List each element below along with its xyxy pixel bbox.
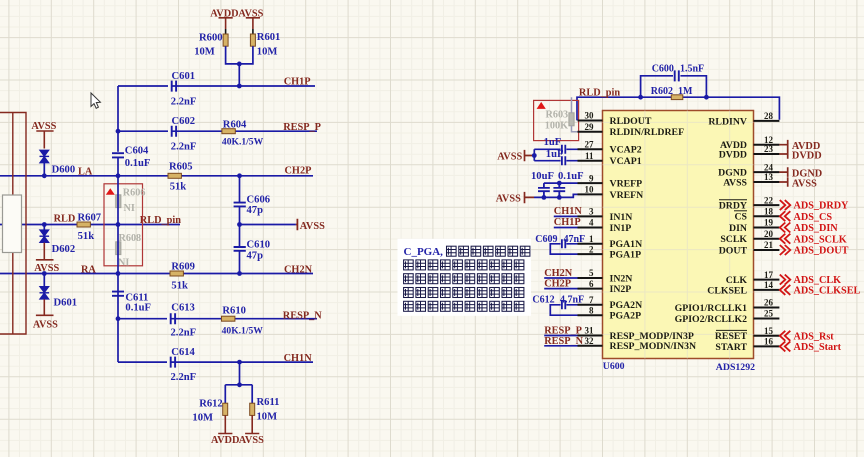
junction RA diode xyxy=(42,271,47,276)
net label CH2N (IC) xyxy=(544,268,577,279)
capacitor 10uF xyxy=(531,171,554,198)
power port AVSS (mid right) xyxy=(296,219,325,232)
svg-text:47p: 47p xyxy=(247,205,264,216)
svg-text:0.1uF: 0.1uF xyxy=(558,171,584,182)
capacitor C610 xyxy=(234,239,270,261)
power port AVSS (top) xyxy=(238,9,263,29)
pin 18 stub xyxy=(754,215,780,217)
svg-text:28: 28 xyxy=(764,111,774,121)
svg-text:ADS_SCLK: ADS_SCLK xyxy=(794,234,847,245)
svg-text:C602: C602 xyxy=(172,116,196,127)
svg-text:21: 21 xyxy=(764,240,774,250)
junction loop right xyxy=(704,95,709,100)
resistor R608 (NI, grayed) xyxy=(116,233,141,269)
svg-text:C601: C601 xyxy=(172,71,196,82)
svg-text:16: 16 xyxy=(764,337,774,347)
wire left rail (vertical x=118) xyxy=(117,86,119,152)
svg-text:C606: C606 xyxy=(247,194,271,205)
pin 14 stub xyxy=(754,289,780,291)
wire VREF AVSS row xyxy=(534,194,578,197)
svg-text:IN2P: IN2P xyxy=(610,284,632,295)
note box C_PGA xyxy=(398,239,532,316)
svg-text:VCAP2: VCAP2 xyxy=(610,145,642,156)
svg-text:C612: C612 xyxy=(532,294,554,305)
svg-text:AVSS: AVSS xyxy=(300,221,325,232)
svg-text:R611: R611 xyxy=(257,397,280,408)
wire rail LA to RESP_N through NI resistors xyxy=(117,176,119,319)
svg-text:AVSS: AVSS xyxy=(31,121,56,132)
svg-text:R607: R607 xyxy=(78,212,102,223)
wire AVSS tap xyxy=(240,224,296,226)
net label CH1N (IC) xyxy=(554,206,583,217)
power port AVSS (top left) xyxy=(31,121,56,148)
svg-text:4.7nF: 4.7nF xyxy=(560,294,584,305)
svg-text:4: 4 xyxy=(589,218,594,228)
resistor R604 xyxy=(222,120,264,148)
svg-text:D602: D602 xyxy=(52,244,76,255)
capacitor C600 xyxy=(652,64,704,82)
resistor R606 (NI, grayed) xyxy=(116,187,146,214)
power port AVDD (bottom) xyxy=(211,415,239,445)
svg-text:26: 26 xyxy=(764,298,774,308)
svg-text:2.2nF: 2.2nF xyxy=(171,96,197,107)
pin 12 stub xyxy=(754,144,780,146)
svg-text:31: 31 xyxy=(585,326,595,336)
pin 2 stub xyxy=(578,253,603,255)
svg-text:RESP_N: RESP_N xyxy=(283,310,322,321)
wire RESP_N xyxy=(118,318,317,320)
svg-text:27: 27 xyxy=(585,140,595,150)
power port AVSS (bottom) xyxy=(239,415,264,445)
capacitor C612 xyxy=(532,294,584,315)
wire C604 bottom to LA xyxy=(117,157,119,175)
NI region box (R606/R608) xyxy=(104,184,143,266)
svg-text:32: 32 xyxy=(585,336,595,346)
svg-text:R609: R609 xyxy=(171,262,195,273)
wire RLD xyxy=(0,224,180,226)
svg-text:NI: NI xyxy=(118,258,129,269)
svg-text:DIN: DIN xyxy=(729,223,747,234)
junction C606/C610 AVSS tap xyxy=(237,222,242,227)
pin 16 stub xyxy=(754,345,780,347)
svg-text:AVSS: AVSS xyxy=(34,263,59,274)
capacitor C602 xyxy=(168,116,196,153)
svg-text:CH1N: CH1N xyxy=(284,353,313,364)
svg-text:ADS_CLKSEL: ADS_CLKSEL xyxy=(794,286,861,297)
wire CH1P xyxy=(118,85,315,87)
svg-text:AVDD: AVDD xyxy=(210,9,238,20)
diode D601 xyxy=(40,274,78,309)
resistor R600 xyxy=(194,33,228,58)
svg-text:15: 15 xyxy=(764,326,774,336)
svg-text:1M: 1M xyxy=(678,86,693,97)
svg-text:R602: R602 xyxy=(651,86,673,97)
wire CH1N xyxy=(118,361,313,363)
svg-text:1.5nF: 1.5nF xyxy=(680,64,704,75)
power port AVSS (below D602) xyxy=(34,243,59,274)
pin 27 stub xyxy=(578,148,603,150)
svg-text:U600: U600 xyxy=(603,361,625,372)
svg-text:R608: R608 xyxy=(119,233,142,244)
svg-text:1uF: 1uF xyxy=(546,149,564,160)
svg-text:7: 7 xyxy=(589,295,594,305)
no-ERC marker pin (ADS_CLK) xyxy=(780,275,791,285)
no-ERC marker pin (ADS_Start) xyxy=(780,341,791,351)
svg-text:30: 30 xyxy=(585,111,595,121)
svg-text:LA: LA xyxy=(78,167,93,178)
power port AVDD (top) xyxy=(210,9,238,29)
wire RA/CH2N xyxy=(0,273,313,275)
svg-text:CS: CS xyxy=(734,212,747,223)
svg-text:100K: 100K xyxy=(545,120,568,131)
svg-text:DOUT: DOUT xyxy=(719,245,748,256)
svg-text:9: 9 xyxy=(589,173,594,183)
svg-text:RESP_P: RESP_P xyxy=(283,122,321,133)
power port AVDD (right) xyxy=(779,140,820,152)
pin 19 stub xyxy=(754,227,780,229)
svg-text:R604: R604 xyxy=(223,120,247,131)
svg-text:IN2N: IN2N xyxy=(610,273,633,284)
resistor R603 (NI, grayed) xyxy=(545,97,579,132)
pin 32 stub xyxy=(578,345,603,347)
svg-text:23: 23 xyxy=(764,144,774,154)
svg-text:RLDINV: RLDINV xyxy=(708,116,747,127)
svg-text:DRDY: DRDY xyxy=(719,201,747,212)
svg-text:47p: 47p xyxy=(247,251,264,262)
svg-text:R605: R605 xyxy=(169,162,193,173)
capacitor C613 xyxy=(167,303,196,339)
capacitor C604 xyxy=(112,145,150,169)
power port AVSS (VREF) xyxy=(496,192,534,204)
svg-text:D600: D600 xyxy=(52,164,76,175)
junction CH2N column xyxy=(237,271,242,276)
capacitor C 1uF (VCAP1) xyxy=(546,149,566,165)
wire R600 top lead xyxy=(225,29,227,34)
pin 25 stub xyxy=(754,318,780,320)
svg-text:DVDD: DVDD xyxy=(719,149,747,160)
svg-text:ADS_CS: ADS_CS xyxy=(794,212,833,223)
svg-text:1uF: 1uF xyxy=(544,137,562,148)
svg-text:29: 29 xyxy=(585,122,595,132)
junction LA rail xyxy=(116,173,121,178)
IC U600 body xyxy=(603,111,754,359)
svg-text:PGA2N: PGA2N xyxy=(610,300,643,311)
junction 10uF bottom xyxy=(542,195,547,200)
svg-text:RLDOUT: RLDOUT xyxy=(610,116,652,127)
pin 11 stub xyxy=(578,160,603,162)
capacitor C609 xyxy=(535,234,585,254)
svg-text:0.1uF: 0.1uF xyxy=(125,158,151,169)
diode D602 xyxy=(40,225,76,256)
svg-text:R606: R606 xyxy=(123,187,146,198)
svg-text:RLDIN/RLDREF: RLDIN/RLDREF xyxy=(610,127,685,138)
svg-text:NI: NI xyxy=(124,203,135,214)
svg-text:AVSS: AVSS xyxy=(239,435,264,446)
junction CH1N column xyxy=(237,360,242,365)
pin 28 stub xyxy=(754,120,780,122)
svg-text:10M: 10M xyxy=(194,46,215,57)
svg-text:GPIO2/RCLLK2: GPIO2/RCLLK2 xyxy=(675,314,747,325)
svg-text:C_PGA,: C_PGA, xyxy=(404,246,444,258)
pin 31 stub xyxy=(578,335,603,337)
junction RA rail xyxy=(116,271,121,276)
NI warning triangle xyxy=(106,188,115,195)
svg-text:ADS_DIN: ADS_DIN xyxy=(794,223,839,234)
svg-text:D601: D601 xyxy=(54,298,78,309)
wire C610 to CH2N xyxy=(239,251,241,274)
pin 6 stub xyxy=(578,288,603,290)
svg-text:ADS1292: ADS1292 xyxy=(716,362,755,373)
power port DVDD (right) xyxy=(779,149,821,161)
svg-text:10M: 10M xyxy=(192,413,213,424)
pin 9 stub xyxy=(578,182,603,184)
wire VCAP2/VCAP1 to AVSS xyxy=(534,149,577,160)
pin 3 stub xyxy=(578,215,603,217)
wire R600/R601 bottoms to junction xyxy=(226,46,253,86)
svg-text:51k: 51k xyxy=(78,231,95,242)
svg-text:ADS_Start: ADS_Start xyxy=(794,342,842,353)
pin 13 stub xyxy=(754,181,780,183)
svg-text:10M: 10M xyxy=(257,46,278,57)
sheet pin box (left edge) xyxy=(3,195,22,253)
power port AVSS (right) xyxy=(779,177,817,189)
diode D600 xyxy=(40,150,76,176)
pin 23 stub xyxy=(754,153,780,155)
wire RLD_pin main line xyxy=(577,97,779,120)
grid over IC xyxy=(603,111,754,359)
svg-text:AVDD: AVDD xyxy=(211,435,239,446)
no-ERC marker pin (ADS_DRDY) xyxy=(780,200,791,210)
svg-text:51k: 51k xyxy=(171,280,188,291)
pin 21 stub xyxy=(754,249,780,251)
wire R601 top lead xyxy=(252,29,254,34)
svg-text:AVSS: AVSS xyxy=(723,177,747,188)
mouse cursor xyxy=(91,93,100,108)
wire C606 to AVSS junction xyxy=(239,206,241,247)
power port AVSS (below D601) xyxy=(33,299,58,330)
svg-text:14: 14 xyxy=(764,280,774,290)
svg-text:R610: R610 xyxy=(222,306,246,317)
svg-text:VREFP: VREFP xyxy=(610,179,643,190)
svg-text:0.1uF: 0.1uF xyxy=(125,303,151,314)
no-ERC marker pin (ADS_CLKSEL) xyxy=(780,285,791,295)
NI region box R603 xyxy=(534,100,579,140)
no-ERC marker pin (ADS_Rst) xyxy=(780,331,791,341)
svg-text:AVSS: AVSS xyxy=(792,179,817,190)
svg-text:24: 24 xyxy=(764,162,774,172)
resistor R612 xyxy=(192,398,227,423)
svg-text:6: 6 xyxy=(589,279,594,289)
svg-text:19: 19 xyxy=(764,218,774,228)
junction VREFP 0.1uF xyxy=(557,181,562,186)
resistor R605 xyxy=(168,162,193,193)
pin 29 stub xyxy=(578,131,603,133)
junction R600/R601 xyxy=(237,62,242,67)
svg-text:AVSS: AVSS xyxy=(33,320,58,331)
svg-text:2: 2 xyxy=(589,244,594,254)
wire LA/CH2P xyxy=(0,175,313,177)
svg-text:VCAP1: VCAP1 xyxy=(610,156,642,167)
svg-text:C614: C614 xyxy=(171,347,195,358)
svg-text:R612: R612 xyxy=(199,398,223,409)
no-ERC marker pin (ADS_CS) xyxy=(780,211,791,221)
pin 30 stub xyxy=(578,120,603,122)
svg-text:RESP_MODN/IN3N: RESP_MODN/IN3N xyxy=(610,341,697,352)
svg-text:RLD: RLD xyxy=(54,214,76,225)
svg-text:CH2P: CH2P xyxy=(285,166,312,177)
svg-text:2.2nF: 2.2nF xyxy=(171,372,197,383)
capacitor C611 xyxy=(112,292,151,314)
svg-text:25: 25 xyxy=(764,309,774,319)
sheet part box (left edge) xyxy=(0,113,26,335)
svg-text:RESET: RESET xyxy=(715,331,748,342)
svg-text:IN1P: IN1P xyxy=(610,223,632,234)
svg-text:11: 11 xyxy=(585,151,594,161)
svg-text:IN1N: IN1N xyxy=(610,212,633,223)
svg-text:CLKSEL: CLKSEL xyxy=(707,285,747,296)
svg-text:22: 22 xyxy=(764,195,774,205)
junction RLD rail xyxy=(116,222,121,227)
wire CH1N junction down to R612/R611 xyxy=(225,362,252,403)
junction RESP_N rail xyxy=(116,316,121,321)
svg-text:18: 18 xyxy=(764,206,774,216)
wire VREFP xyxy=(544,182,578,184)
net label CH2P (IC) xyxy=(544,278,577,289)
net label RESP_N (IC) xyxy=(544,336,583,347)
svg-text:C613: C613 xyxy=(171,303,195,314)
wire rail RESP_N to CH1N xyxy=(117,319,119,362)
junction R612/R611 xyxy=(237,382,242,387)
svg-text:40K.1/5W: 40K.1/5W xyxy=(222,326,264,337)
svg-text:START: START xyxy=(715,342,747,353)
svg-text:5: 5 xyxy=(589,268,594,278)
wire RESP_P xyxy=(118,130,317,132)
svg-text:C610: C610 xyxy=(247,239,271,250)
junction RLD diode xyxy=(42,222,47,227)
pin 15 stub xyxy=(754,335,780,337)
svg-text:8: 8 xyxy=(589,305,594,315)
pin 26 stub xyxy=(754,307,780,309)
svg-text:2.2nF: 2.2nF xyxy=(171,142,197,153)
NI warning triangle R603 xyxy=(537,102,546,109)
svg-text:10uF: 10uF xyxy=(531,171,554,182)
resistor R611 xyxy=(250,397,280,422)
junction RESP_P rail xyxy=(116,129,121,134)
pin 10 stub xyxy=(578,193,603,195)
svg-text:C600: C600 xyxy=(652,64,674,75)
capacitor C601 xyxy=(168,71,196,108)
capacitor C 1uF (VCAP2) xyxy=(544,137,566,154)
junction LA diode xyxy=(42,173,47,178)
svg-text:R600: R600 xyxy=(199,33,223,44)
net label CH1P (IC) xyxy=(554,217,581,228)
resistor R602 xyxy=(651,86,693,100)
svg-text:AVSS: AVSS xyxy=(497,151,522,162)
svg-text:3: 3 xyxy=(589,207,594,217)
svg-text:R603: R603 xyxy=(546,110,569,121)
pin 7 stub xyxy=(578,304,603,306)
junction CH1P column xyxy=(237,84,242,89)
power port DGND (right) xyxy=(779,167,822,179)
resistor R607 xyxy=(77,212,102,242)
svg-text:10M: 10M xyxy=(257,411,278,422)
svg-text:AVSS: AVSS xyxy=(238,9,263,20)
svg-text:ADS_DRDY: ADS_DRDY xyxy=(794,201,850,212)
pin 1 stub xyxy=(578,243,603,245)
wire CH2P to C606 xyxy=(239,176,241,203)
svg-text:CH1P: CH1P xyxy=(554,217,581,228)
svg-text:CH1P: CH1P xyxy=(284,77,311,88)
svg-text:ADS_Rst: ADS_Rst xyxy=(794,331,835,342)
capacitor C606 xyxy=(234,194,270,216)
svg-text:2.2nF: 2.2nF xyxy=(171,328,197,339)
power port AVSS (VCAP) xyxy=(497,150,534,162)
svg-text:10: 10 xyxy=(585,185,595,195)
svg-text:ADS_DOUT: ADS_DOUT xyxy=(794,246,849,257)
junction 0.1uF bottom xyxy=(557,195,562,200)
svg-text:CH2N: CH2N xyxy=(284,265,313,276)
svg-text:RLD_pin: RLD_pin xyxy=(579,88,620,99)
pin 8 stub xyxy=(578,314,603,316)
svg-text:1: 1 xyxy=(589,234,594,244)
pin 22 stub xyxy=(754,204,780,206)
svg-text:C604: C604 xyxy=(125,145,149,156)
svg-text:R601: R601 xyxy=(257,32,281,43)
resistor R610 xyxy=(222,306,264,337)
capacitor 0.1uF xyxy=(553,171,583,198)
junction loop left xyxy=(638,95,643,100)
wire C600 feedback loop xyxy=(641,76,707,97)
no-ERC marker pin (ADS_SCLK) xyxy=(780,234,791,244)
svg-text:13: 13 xyxy=(764,172,774,182)
junction CH2P column xyxy=(237,173,242,178)
svg-text:VREFN: VREFN xyxy=(610,190,644,201)
svg-text:20: 20 xyxy=(764,229,774,239)
svg-text:40K.1/5W: 40K.1/5W xyxy=(222,136,264,147)
no-ERC marker pin (ADS_DIN) xyxy=(780,223,791,233)
no-ERC marker pin (ADS_DOUT) xyxy=(780,245,791,255)
pin 24 stub xyxy=(754,171,780,173)
net label RESP_P (IC) xyxy=(544,326,582,337)
svg-text:GPIO1/RCLLK1: GPIO1/RCLLK1 xyxy=(675,303,747,314)
svg-text:PGA1P: PGA1P xyxy=(610,250,642,261)
pin 4 stub xyxy=(578,227,603,229)
resistor R609 xyxy=(170,262,195,292)
svg-text:RLD_pin: RLD_pin xyxy=(140,215,181,226)
pin 20 stub xyxy=(754,238,780,240)
resistor R601 xyxy=(250,32,280,57)
svg-text:RA: RA xyxy=(81,264,96,275)
svg-text:51k: 51k xyxy=(170,181,187,192)
pin 17 stub xyxy=(754,279,780,281)
svg-text:AVSS: AVSS xyxy=(496,193,521,204)
pin 5 stub xyxy=(578,277,603,279)
svg-text:DVDD: DVDD xyxy=(792,151,822,162)
svg-text:SCLK: SCLK xyxy=(720,234,747,245)
svg-text:PGA2P: PGA2P xyxy=(610,311,642,322)
capacitor C614 xyxy=(167,347,196,383)
svg-text:17: 17 xyxy=(764,270,774,280)
junction AVSS VCAP xyxy=(532,153,537,158)
